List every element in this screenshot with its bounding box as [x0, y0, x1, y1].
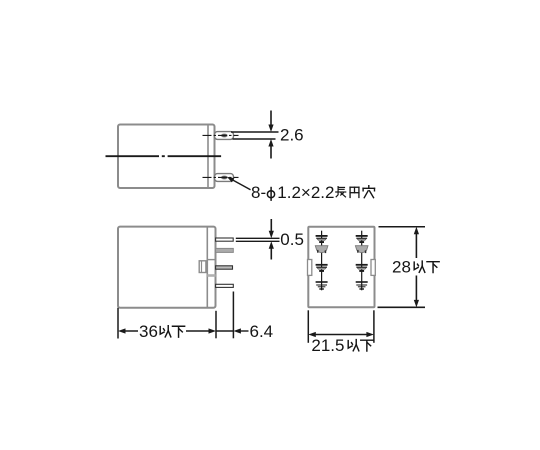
extension line 28 bottom — [378, 306, 426, 308]
pin C row2 left — [315, 246, 328, 253]
dimension line 36 with arrows — [118, 328, 216, 333]
view C right notch — [371, 260, 375, 276]
view A horizontal centerline — [106, 155, 222, 157]
pin B3 — [216, 266, 233, 269]
dimension line 6.4 with arrows — [216, 328, 249, 333]
view A relay body (side view) — [118, 125, 215, 189]
view B latch slot top line — [207, 259, 215, 261]
view C left notch — [308, 260, 312, 276]
pin C row4 right — [356, 281, 368, 290]
leader line to oval hole — [227, 177, 251, 190]
extension lines for 2.6 dim — [231, 131, 279, 133]
view B relay body (front view) — [118, 227, 216, 308]
dimension 0.5 arrows — [269, 219, 274, 260]
pin B1 — [216, 238, 234, 241]
extension line 36 right — [215, 311, 217, 339]
extension line 28 top — [379, 226, 426, 228]
pin B4 — [216, 284, 234, 287]
dimension 2.6 arrows — [268, 111, 273, 159]
extension line 36 left — [117, 308, 119, 339]
pin C row1 left — [316, 235, 328, 243]
pin C row1 right — [356, 235, 368, 243]
extension lines for 0.5 dim — [236, 237, 280, 239]
dimension line 28 with arrows — [414, 227, 419, 308]
dimension line 21.5 with arrows — [308, 332, 374, 337]
pin C row3 right — [356, 264, 368, 272]
svg-text:0.5: 0.5 — [280, 230, 304, 249]
view C right column centerline — [361, 231, 363, 291]
pin C row3 left — [316, 264, 328, 272]
pin A2 (bottom terminal, side view) — [203, 174, 239, 182]
view A flange line — [207, 125, 209, 188]
view B flange line — [206, 227, 208, 307]
svg-text:21.5: 21.5 — [311, 336, 344, 355]
extension line 21.5 right — [373, 310, 375, 343]
dimension text 28以下 — [391, 258, 443, 277]
svg-text:28: 28 — [392, 258, 411, 277]
extension line 21.5 left — [307, 310, 309, 343]
pin C row2 right — [355, 246, 368, 253]
dimension text 21.5以下 — [311, 336, 373, 355]
pin C row4 left — [316, 281, 328, 290]
view C relay bottom view body — [308, 227, 374, 307]
view B latch tab — [199, 261, 206, 273]
dimension text 36以下 — [139, 322, 185, 341]
view B latch slot gray — [207, 274, 215, 277]
svg-text:6.4: 6.4 — [250, 322, 274, 341]
svg-text:36: 36 — [139, 322, 158, 341]
view C left column centerline — [321, 231, 323, 291]
svg-text:8-: 8- — [251, 183, 266, 202]
pin A1 (top terminal, side view) — [203, 132, 239, 140]
pin B2 (rear, gray) — [216, 248, 234, 252]
label 8-phi1.2x2.2 oblong hole — [251, 183, 374, 202]
svg-text:1.2×2.2: 1.2×2.2 — [277, 183, 334, 202]
extension line 6.4 right — [232, 292, 234, 339]
svg-text:2.6: 2.6 — [280, 126, 304, 145]
